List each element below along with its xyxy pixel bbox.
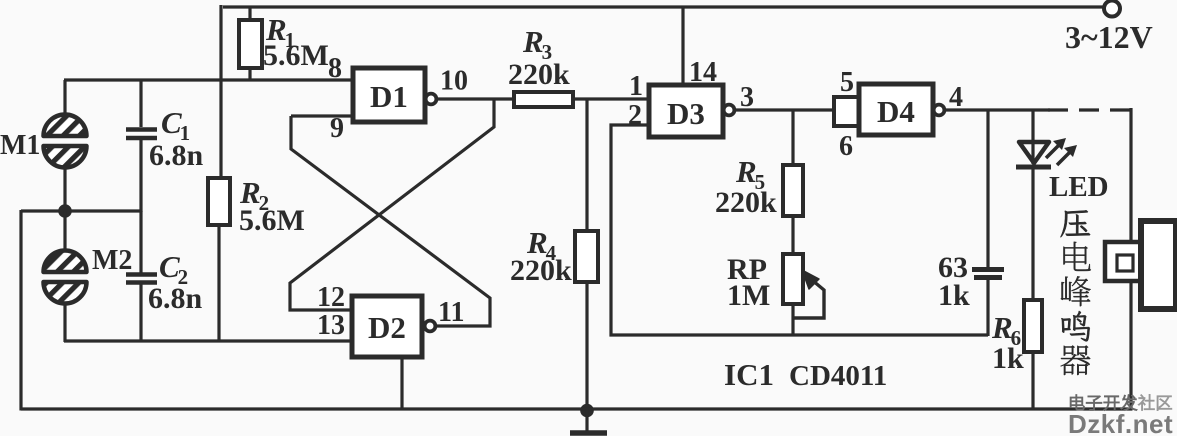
svg-text:5: 5 [840,67,854,98]
svg-text:1: 1 [629,71,643,102]
ground [585,409,588,431]
wire: D3 pin 2 feedback loop [611,125,988,335]
svg-text:10: 10 [440,66,468,97]
svg-text:1k: 1k [992,342,1024,375]
svg-text:9: 9 [330,113,344,144]
svg-text:13: 13 [317,310,345,341]
LED emission arrows [1046,145,1059,158]
svg-text:4: 4 [949,82,963,113]
wire: top rail to D3 pin 14 [681,7,684,85]
svg-text:3~12V: 3~12V [1065,19,1153,55]
wire: top power rail [223,5,1104,8]
wire: left outer vertical [19,210,22,411]
capacitor (63/1k) [986,110,989,267]
wire: node to R4 [585,99,588,231]
node: R4/ground junction dot [580,404,594,418]
wire: D2 pin 7 to ground rail [400,357,403,411]
microphone M2 leads [63,211,66,257]
wire: R3 to D3 pin 1 [573,97,649,100]
wire: buzzer vertical [1129,108,1132,243]
RP wiper [794,280,824,318]
svg-text:220k: 220k [510,254,572,287]
svg-text:R: R [991,310,1013,345]
label 压电峰鸣器 [1060,210,1090,237]
wire: D1 output to R3 [436,97,514,100]
svg-text:M1: M1 [0,130,40,161]
resistor R2 [208,178,230,225]
svg-text:5.6M: 5.6M [263,39,329,72]
svg-text:M2: M2 [92,245,132,276]
power terminal [1104,1,1120,17]
wire: dashed segment to buzzer [1048,108,1131,111]
svg-text:D1: D1 [370,79,408,114]
piezo buzzer [1105,242,1142,281]
svg-text:R: R [735,154,757,189]
D2 output bubble [425,321,436,332]
watermark 电子开发社区 [1070,395,1084,410]
svg-text:R: R [522,24,544,59]
D4 input square (pins 5,6) [834,97,860,126]
wire: D2 output to D1 pin 9 (cross link) [291,116,490,326]
wire: D3 output to D4 input [735,108,834,111]
node: junction dot [58,204,72,218]
svg-text:CD4011: CD4011 [789,360,887,392]
resistor R5 [783,165,803,216]
svg-text:12: 12 [317,282,345,313]
resistor R3 [514,92,573,107]
D1 output bubble [426,94,437,105]
wire: D4 output solid segment [944,108,1050,111]
svg-text:3: 3 [740,82,754,113]
NAND gate D1 [353,68,425,122]
NAND gate D4 [859,84,933,135]
wire: M1-M2 junction horizontal [21,209,141,212]
svg-text:Dzkf.net: Dzkf.net [1068,409,1173,436]
svg-text:D3: D3 [667,96,705,131]
svg-text:11: 11 [438,297,464,328]
svg-text:220k: 220k [715,186,777,219]
potentiometer RP [783,254,803,304]
svg-text:D4: D4 [877,94,915,129]
NAND gate D3 [649,85,723,137]
svg-text:6.8n: 6.8n [149,139,204,172]
svg-text:1M: 1M [727,279,770,312]
wire: D1 output to D2 pin 12 (cross link) [290,99,494,310]
wire: bottom ground rail [21,407,1132,410]
LED [1031,110,1034,164]
svg-text:LED: LED [1049,171,1109,203]
svg-text:6: 6 [839,131,853,162]
capacitor C1 [139,80,142,127]
D3 output bubble [724,105,735,116]
svg-text:8: 8 [328,53,342,84]
wire: vertical from top rail down to R2 (left branch) [219,5,222,178]
svg-text:IC1: IC1 [724,357,774,392]
capacitor C2 [139,211,142,273]
resistor R1 [248,7,251,20]
svg-text:220k: 220k [508,58,570,91]
wire: node to R5 [791,110,794,165]
microphone M1 leads [63,80,66,121]
svg-text:6.8n: 6.8n [148,282,203,315]
svg-text:1k: 1k [938,279,970,312]
resistor R4 [575,231,598,282]
microphone M1 [44,115,87,137]
svg-text:14: 14 [689,57,717,88]
wire: D1 pin 9 input [291,114,353,117]
wire: M1/C1/R1 node to D1 pin 8 [64,78,353,81]
resistor R6 [1024,300,1042,352]
wire: mic bottom rail to D2 pin 13 [64,339,352,342]
microphone M2 [44,251,87,273]
NAND gate D2 [352,296,422,357]
svg-text:D2: D2 [368,310,406,345]
svg-text:5.6M: 5.6M [239,204,305,237]
D4 output bubble [934,105,945,116]
